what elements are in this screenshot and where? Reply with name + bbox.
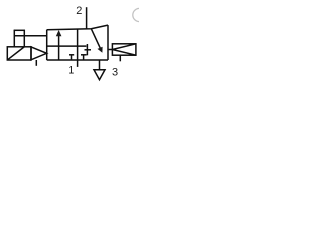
flow arrow 1 to 2 <box>58 34 60 61</box>
pilot drain stub <box>35 60 37 66</box>
pilot triangle left <box>31 47 47 60</box>
svg-text:1: 1 <box>68 65 74 77</box>
valve bottom edge <box>47 59 108 61</box>
port 3 stub <box>99 60 101 70</box>
solenoid coil box Y1 <box>7 47 31 60</box>
faint air source circle (cropped) <box>133 8 146 21</box>
wire horizontal to pilot <box>47 25 108 30</box>
air pilot box Z1 <box>112 44 135 55</box>
blocked port T right square top <box>86 44 88 55</box>
solenoid pin top bar <box>14 29 25 31</box>
solenoid pin left <box>13 30 15 47</box>
pilot connector wire <box>108 49 112 51</box>
air pilot triangle <box>112 44 135 55</box>
wire solenoid to valve <box>14 35 46 37</box>
solenoid diagonal <box>8 47 25 60</box>
exhaust triangle <box>94 70 105 80</box>
air pilot drain stub <box>119 55 121 61</box>
solenoid pin right <box>23 30 25 47</box>
flow diagonal 2 to 3 <box>91 29 100 49</box>
valve left edge riser <box>46 30 48 60</box>
blocked port T left square <box>71 55 73 60</box>
valve right edge <box>107 25 109 60</box>
wire port 2 riser <box>86 7 88 29</box>
blocked port T right square bottom <box>83 55 85 60</box>
valve position divider / port 2-1 line <box>77 29 79 67</box>
svg-text:3: 3 <box>112 66 118 78</box>
valve top edge <box>47 45 87 47</box>
svg-text:2: 2 <box>76 5 82 17</box>
